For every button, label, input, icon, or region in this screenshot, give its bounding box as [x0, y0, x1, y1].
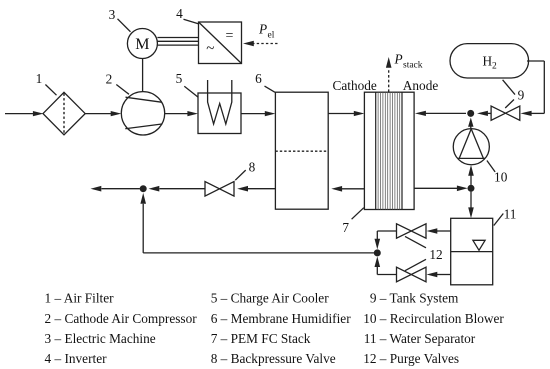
svg-text:– Recirculation Blower: – Recirculation Blower	[379, 311, 505, 326]
svg-text:8: 8	[249, 160, 256, 175]
svg-text:6 – Membrane Humidifier: 6 – Membrane Humidifier	[211, 311, 352, 326]
svg-text:4 – Inverter: 4 – Inverter	[45, 351, 108, 366]
svg-text:stack: stack	[403, 60, 423, 70]
svg-text:2: 2	[106, 71, 113, 86]
svg-text:~: ~	[206, 41, 214, 57]
svg-text:7 – PEM FC Stack: 7 – PEM FC Stack	[211, 331, 311, 346]
svg-text:– Purge Valves: – Purge Valves	[379, 351, 459, 366]
svg-text:M: M	[135, 36, 149, 53]
svg-text:10: 10	[363, 311, 377, 326]
svg-text:6: 6	[255, 71, 262, 86]
svg-text:3 – Electric Machine: 3 – Electric Machine	[45, 331, 156, 346]
svg-text:3: 3	[109, 7, 116, 22]
svg-text:12: 12	[429, 247, 442, 262]
svg-text:11: 11	[504, 207, 517, 222]
svg-text:1 – Air Filter: 1 – Air Filter	[45, 291, 115, 306]
svg-text:– Water Separator: – Water Separator	[379, 331, 476, 346]
svg-text:=: =	[225, 29, 233, 44]
svg-text:4: 4	[176, 6, 183, 21]
svg-text:2 – Cathode Air Compressor: 2 – Cathode Air Compressor	[45, 311, 198, 326]
svg-text:7: 7	[342, 220, 349, 235]
svg-text:P: P	[394, 51, 403, 66]
svg-text:H: H	[483, 53, 493, 68]
svg-text:1: 1	[36, 71, 43, 86]
svg-text:11: 11	[364, 331, 377, 346]
svg-text:Cathode: Cathode	[333, 78, 377, 93]
svg-text:10: 10	[494, 170, 508, 185]
svg-text:P: P	[258, 22, 267, 37]
svg-text:– Tank System: – Tank System	[379, 291, 459, 306]
svg-text:Anode: Anode	[403, 78, 439, 93]
svg-text:5: 5	[176, 71, 183, 86]
svg-text:12: 12	[363, 351, 376, 366]
svg-text:8 – Backpressure Valve: 8 – Backpressure Valve	[211, 351, 336, 366]
svg-text:9: 9	[370, 291, 377, 306]
svg-text:9: 9	[518, 88, 525, 103]
svg-text:2: 2	[492, 61, 497, 71]
svg-text:el: el	[268, 31, 275, 41]
svg-text:5 – Charge Air Cooler: 5 – Charge Air Cooler	[211, 291, 330, 306]
